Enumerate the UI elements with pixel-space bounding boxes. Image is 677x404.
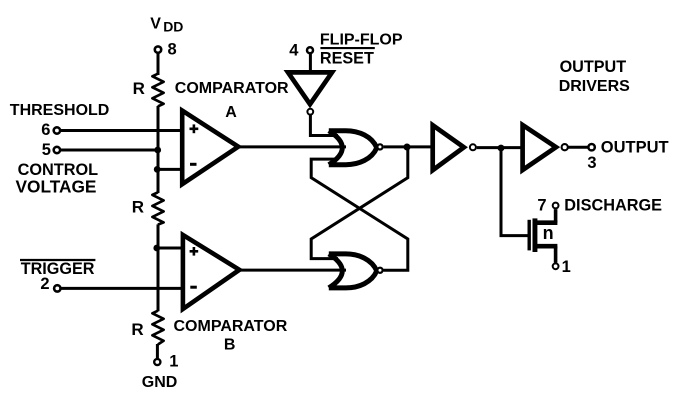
pin 4 terminal xyxy=(289,42,313,60)
transistor Q1 n-channel xyxy=(528,209,558,262)
resistor R1 xyxy=(133,74,164,107)
svg-text:1: 1 xyxy=(169,353,178,371)
NOR gate 2 (latch bottom) xyxy=(329,254,383,288)
wire NOR1 output xyxy=(384,145,433,148)
svg-text:RESET: RESET xyxy=(320,49,374,67)
svg-text:COMPARATOR: COMPARATOR xyxy=(174,318,288,335)
resistor R3 xyxy=(131,311,163,345)
wire tap to comparator A minus xyxy=(157,168,184,171)
svg-text:2: 2 xyxy=(40,275,49,293)
wire NOR2 output to cross coupling xyxy=(311,159,408,270)
NOR gate 1 (latch top) xyxy=(329,131,383,165)
inverter U3 (reset) xyxy=(288,72,332,114)
node comparator A minus tap xyxy=(154,166,161,173)
wire R1 to R2 xyxy=(157,106,160,193)
svg-text:V: V xyxy=(150,16,161,33)
svg-text:8: 8 xyxy=(168,40,177,58)
label COMPARATOR A xyxy=(175,80,289,121)
wire comparator A output to NOR1 xyxy=(238,145,346,148)
label CONTROL VOLTAGE xyxy=(16,161,99,197)
node NOR1 output junction xyxy=(404,144,411,151)
pin 3 OUTPUT terminal xyxy=(587,139,668,173)
resistor R2 xyxy=(132,192,164,224)
label VDD xyxy=(150,16,183,35)
svg-text:A: A xyxy=(225,104,237,121)
svg-text:DD: DD xyxy=(163,19,183,35)
label OUTPUT DRIVERS xyxy=(559,58,630,95)
wire tap to comparator B plus xyxy=(157,247,184,250)
svg-text:DRIVERS: DRIVERS xyxy=(559,78,630,95)
wire R2 to R3 xyxy=(157,224,160,311)
svg-text:VOLTAGE: VOLTAGE xyxy=(16,177,97,197)
pin 8 terminal xyxy=(155,40,177,58)
svg-text:R: R xyxy=(133,79,145,98)
wire pin2 to comparator B minus xyxy=(61,287,184,290)
pin 2 terminal xyxy=(40,275,60,293)
comparator A xyxy=(182,111,238,185)
wire R3 to GND pin xyxy=(156,344,159,358)
wire NOR1 output to cross coupling xyxy=(311,147,408,258)
wire pin5 to control tap xyxy=(61,149,158,152)
svg-text:OUTPUT: OUTPUT xyxy=(601,139,669,157)
pin 6 terminal xyxy=(41,121,60,139)
svg-text:OUTPUT: OUTPUT xyxy=(560,58,627,76)
svg-text:3: 3 xyxy=(587,154,596,172)
wire VDD to R1 xyxy=(157,54,160,75)
pin 7 DISCHARGE terminal xyxy=(537,196,662,214)
pin 1 (discharge source) terminal xyxy=(553,258,571,276)
pin 5 terminal xyxy=(42,141,60,159)
svg-text:B: B xyxy=(224,336,236,353)
wire pin4 to reset inverter xyxy=(309,53,312,71)
svg-text:DISCHARGE: DISCHARGE xyxy=(564,197,662,215)
svg-text:FLIP-FLOP: FLIP-FLOP xyxy=(320,32,403,49)
inverter U5 (driver 2) xyxy=(523,125,568,170)
wire driver1 to driver2 xyxy=(477,146,523,149)
pin 1 GND terminal xyxy=(142,353,179,391)
node control-voltage tap xyxy=(154,147,161,154)
svg-text:GND: GND xyxy=(142,374,178,391)
svg-text:THRESHOLD: THRESHOLD xyxy=(10,102,110,119)
label FLIP-FLOP RESET (overbar) xyxy=(320,32,403,68)
node output junction xyxy=(498,145,505,152)
wire driver junction to transistor gate xyxy=(501,150,528,236)
svg-text:R: R xyxy=(131,320,143,339)
svg-text:5: 5 xyxy=(42,141,51,159)
wire pin6 to comparator A plus xyxy=(61,129,184,132)
node comparator B plus tap xyxy=(153,245,160,252)
svg-text:6: 6 xyxy=(41,121,50,139)
comparator B xyxy=(183,235,240,309)
svg-text:4: 4 xyxy=(289,42,299,60)
wire reset inverter to NOR1 top input xyxy=(310,115,338,136)
svg-text:n: n xyxy=(543,223,554,243)
svg-text:COMPARATOR: COMPARATOR xyxy=(175,80,289,97)
inverter U4 (driver 1) xyxy=(433,125,476,170)
wire comparator B output to NOR2 xyxy=(239,269,346,272)
wire driver2 to pin3 xyxy=(569,146,589,149)
svg-text:TRIGGER: TRIGGER xyxy=(21,260,95,278)
label TRIGGER (overbar) xyxy=(20,260,95,278)
label COMPARATOR B xyxy=(174,318,288,353)
svg-text:R: R xyxy=(132,197,144,216)
svg-text:7: 7 xyxy=(537,196,546,214)
svg-text:1: 1 xyxy=(562,258,571,276)
